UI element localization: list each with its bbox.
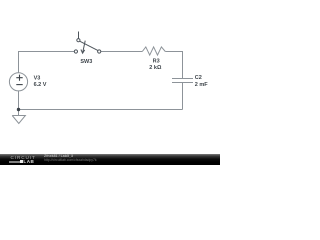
switch SW3 lever (80, 41, 98, 50)
wire V3 bottom to bottom rail (18, 91, 20, 110)
svg-text:C2: C2 (195, 75, 202, 81)
svg-text:2 mF: 2 mF (195, 82, 208, 88)
switch SW3 top terminal (77, 39, 80, 42)
svg-text:R3: R3 (153, 59, 160, 65)
junction node (17, 108, 20, 111)
wire bottom rail (19, 109, 183, 111)
ground (12, 110, 25, 124)
footer text line 1 (44, 155, 73, 159)
footer bar (0, 154, 220, 165)
footer text line 2 (44, 159, 97, 162)
switch SW3 left terminal (74, 50, 77, 53)
wire resistor to capacitor top (165, 52, 182, 79)
svg-text:6.2 V: 6.2 V (34, 82, 47, 88)
wire switch to resistor (101, 51, 143, 53)
switch SW3 top stub (78, 32, 80, 39)
resistor R3 (142, 47, 165, 55)
wire top-left (V3 top to switch) (19, 52, 75, 73)
svg-text:V3: V3 (34, 75, 41, 81)
V3 minus sign (16, 84, 22, 86)
capacitor C2 plates (172, 79, 193, 83)
switch SW3 right terminal (98, 50, 101, 53)
wire capacitor bottom to rail (182, 83, 184, 110)
switch SW3 arrow (81, 41, 85, 54)
V3 plus sign (16, 75, 22, 81)
svg-text:2 kΩ: 2 kΩ (149, 65, 162, 71)
CircuitLab logo (11, 156, 36, 160)
voltage source V3 (9, 73, 27, 91)
svg-text:SW3: SW3 (80, 59, 92, 65)
